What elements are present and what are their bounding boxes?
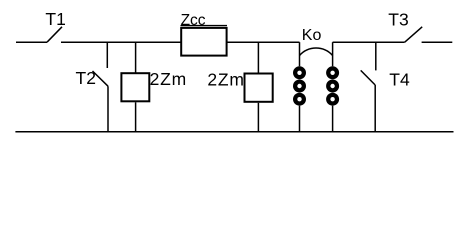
svg-text:T2: T2 (76, 68, 96, 88)
svg-text:Ko: Ko (302, 27, 322, 44)
svg-text:T3: T3 (388, 9, 408, 29)
svg-text:2Zm: 2Zm (150, 69, 187, 89)
svg-text:2Zm: 2Zm (207, 70, 244, 90)
svg-text:T4: T4 (389, 70, 410, 90)
svg-text:Zcc: Zcc (181, 12, 206, 29)
svg-text:T1: T1 (45, 9, 65, 29)
